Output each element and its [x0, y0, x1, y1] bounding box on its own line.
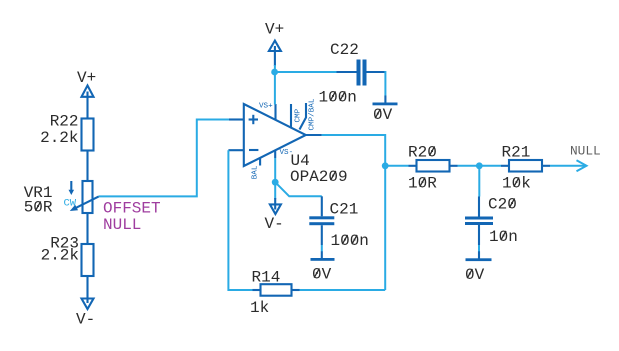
svg-text:100n: 100n: [331, 232, 369, 250]
svg-text:10n: 10n: [489, 228, 518, 246]
svg-text:1k: 1k: [250, 299, 269, 317]
svg-text:R22: R22: [50, 113, 79, 131]
svg-text:CMP/BAL: CMP/BAL: [308, 98, 316, 130]
svg-text:R21: R21: [502, 144, 531, 162]
svg-text:NULL: NULL: [570, 144, 601, 159]
svg-text:OPA209: OPA209: [290, 168, 348, 186]
svg-text:C22: C22: [330, 41, 359, 59]
svg-text:C21: C21: [330, 201, 359, 219]
svg-text:CW: CW: [64, 198, 77, 210]
svg-text:10R: 10R: [408, 175, 437, 193]
svg-text:NULL: NULL: [103, 216, 141, 234]
svg-text:CMP: CMP: [294, 108, 302, 122]
svg-text:2.2k: 2.2k: [41, 247, 79, 265]
svg-text:C20: C20: [488, 196, 517, 214]
svg-text:R20: R20: [408, 144, 437, 162]
svg-text:OFFSET: OFFSET: [103, 200, 161, 218]
svg-text:VS-: VS-: [280, 149, 294, 157]
svg-text:2.2k: 2.2k: [40, 129, 78, 147]
svg-text:V-: V-: [265, 215, 284, 233]
svg-text:V+: V+: [265, 21, 284, 39]
svg-text:V+: V+: [77, 69, 96, 87]
svg-text:50R: 50R: [24, 199, 53, 217]
svg-text:10k: 10k: [502, 175, 531, 193]
svg-text:R14: R14: [252, 269, 281, 287]
svg-text:VS+: VS+: [259, 103, 273, 111]
svg-text:0V: 0V: [312, 266, 332, 284]
svg-text:0V: 0V: [373, 106, 393, 124]
svg-text:BAL: BAL: [252, 165, 260, 179]
svg-text:100n: 100n: [319, 89, 357, 107]
svg-text:V-: V-: [76, 311, 95, 329]
svg-text:0V: 0V: [465, 266, 485, 284]
